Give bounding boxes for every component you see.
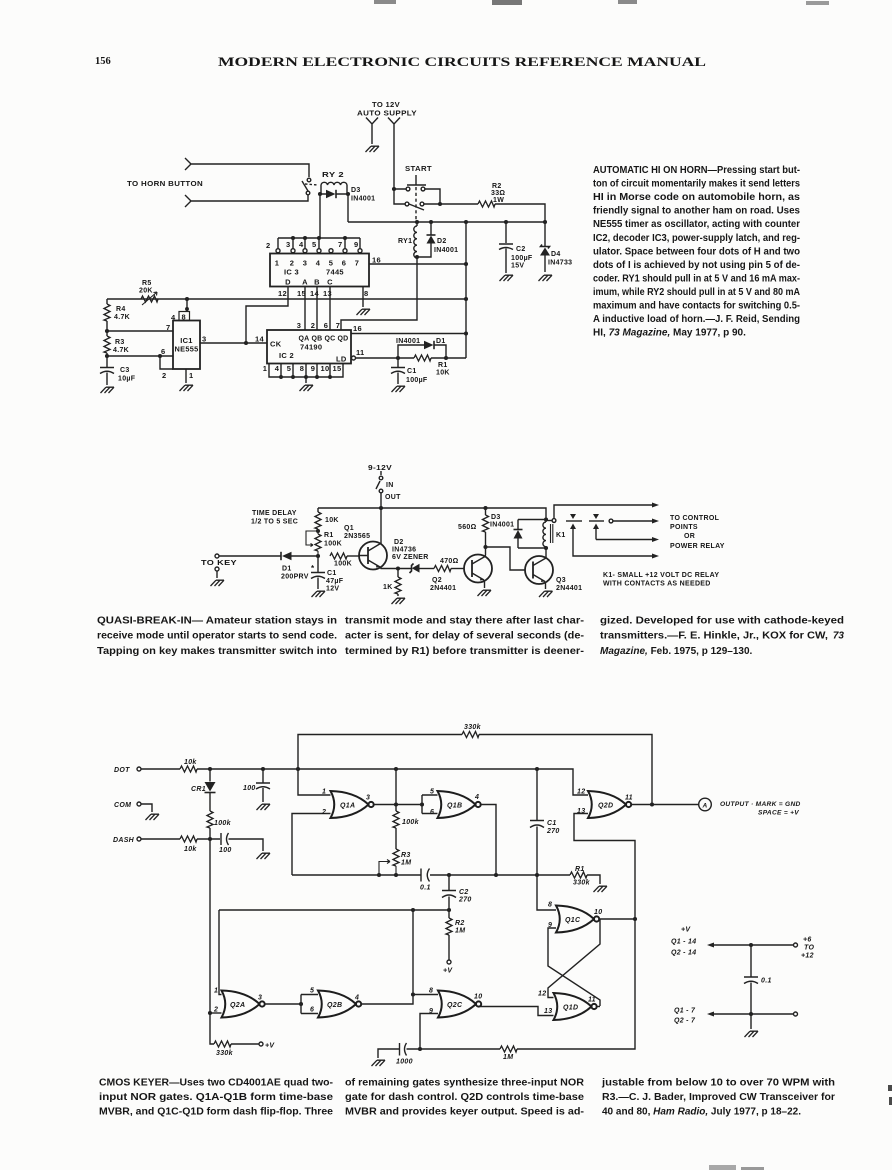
node Vcc/IC1 pins 4-8 <box>185 297 189 301</box>
ground 100 dot <box>257 804 271 810</box>
wire D3 right down to bus <box>347 194 349 222</box>
svg-text:A: A <box>702 803 708 810</box>
svg-text:DOT: DOT <box>114 767 130 774</box>
svg-text:200PRV: 200PRV <box>281 574 309 581</box>
relay coil K1 <box>543 520 546 547</box>
svg-text:14: 14 <box>255 335 264 344</box>
svg-text:AUTOMATIC HI ON HORN—Pressing: AUTOMATIC HI ON HORN—Pressing start but- <box>593 165 800 176</box>
svg-text:7445: 7445 <box>326 268 344 277</box>
svg-text:Q3: Q3 <box>556 577 566 584</box>
terminal key tip <box>215 554 219 558</box>
node bus RY1 <box>415 220 419 224</box>
wire IC2 bottom pins to ground bus <box>269 364 343 384</box>
node IC3 bus pin6 <box>343 236 347 240</box>
svg-text:LD: LD <box>336 355 347 364</box>
svg-text:100K: 100K <box>324 541 342 548</box>
node C2 top <box>447 873 451 877</box>
ground D4 <box>539 275 553 281</box>
svg-text:RY 2: RY 2 <box>322 172 344 179</box>
arrowhead line1 <box>652 503 659 508</box>
capacitor C1 100uF <box>391 358 405 384</box>
svg-text:gate for dash control. Q2D con: gate for dash control. Q2D controls time… <box>345 1092 584 1103</box>
svg-text:R4: R4 <box>116 306 126 313</box>
node C2 bottom <box>447 908 451 912</box>
svg-text:Tapping on key makes transmitt: Tapping on key makes transmitter switch … <box>97 646 337 657</box>
NOR gate Q2C <box>438 991 481 1018</box>
svg-text:5: 5 <box>287 364 291 373</box>
node gnd bus p8 <box>304 375 308 379</box>
svg-text:QC: QC <box>324 336 335 343</box>
svg-text:NE555: NE555 <box>175 345 199 354</box>
svg-text:270: 270 <box>546 828 560 835</box>
resistor R1 10K <box>414 355 431 361</box>
resistor 330k feedback <box>462 732 479 738</box>
node pin6 jog <box>158 354 162 358</box>
scan artifact marks right edge <box>888 1085 892 1105</box>
wire start to R2 <box>424 203 478 205</box>
svg-text:C1: C1 <box>327 570 337 577</box>
node rail/560 <box>483 506 487 510</box>
svg-text:12V: 12V <box>326 586 339 593</box>
resistor R2 33ohm 1W <box>478 201 495 207</box>
capacitor 100 dash line <box>221 833 263 851</box>
svg-text:0.1: 0.1 <box>420 885 431 892</box>
svg-text:WITH CONTACTS AS NEEDED: WITH CONTACTS AS NEEDED <box>603 581 711 588</box>
wire LD to R1 <box>356 357 415 359</box>
diode D4 zener IN4733 <box>544 222 546 272</box>
svg-text:4: 4 <box>316 259 321 268</box>
potentiometer R5 20K <box>141 296 158 302</box>
svg-text:1: 1 <box>322 789 326 796</box>
svg-text:coder. RY1 should pull in at 5: coder. RY1 should pull in at 5 V and 16 … <box>593 273 800 284</box>
wire IC1 pin3 output to IC2 CK <box>200 342 267 344</box>
node clock/D junction <box>244 341 248 345</box>
svg-text:1W: 1W <box>493 197 504 204</box>
node 100k MVBR vertical <box>394 767 398 771</box>
wire DASH to 10k <box>141 838 180 840</box>
svg-text:R3.—C. J. Bader, Improved CW T: R3.—C. J. Bader, Improved CW Transceiver… <box>602 1092 835 1103</box>
wire IC3 top bus <box>278 238 360 249</box>
svg-text:8: 8 <box>548 902 552 909</box>
svg-text:74190: 74190 <box>300 343 322 352</box>
resistor 330k to +V <box>214 1041 231 1047</box>
labels IC3 output pin numbers 2 3 4 5 7 9 <box>266 240 358 250</box>
svg-text:IN4001: IN4001 <box>490 522 514 529</box>
svg-text:100: 100 <box>219 847 232 854</box>
svg-text:OR: OR <box>684 533 695 540</box>
terminal +6 supply <box>794 943 798 947</box>
svg-text:6: 6 <box>324 321 328 330</box>
svg-text:2: 2 <box>162 371 166 380</box>
diode CR1 <box>209 769 211 782</box>
node Q1B input bracket <box>420 802 424 806</box>
svg-text:3: 3 <box>366 795 370 802</box>
wire Q1D output stub <box>597 1006 600 1008</box>
svg-text:10: 10 <box>594 909 602 916</box>
svg-text:C1: C1 <box>547 820 557 827</box>
ground C1 <box>312 591 326 597</box>
svg-text:15: 15 <box>333 364 342 373</box>
node collector rail junction <box>379 506 383 510</box>
capacitor C2 100uF 15V <box>499 222 513 273</box>
svg-text:9: 9 <box>311 364 315 373</box>
svg-text:7: 7 <box>355 259 359 268</box>
resistor 100k dot-dash <box>207 811 213 828</box>
svg-text:C2: C2 <box>459 889 469 896</box>
relay coil RY1 <box>414 222 417 258</box>
wire Q1A pin2 <box>292 814 331 876</box>
wire Q1C pin9 <box>548 928 600 1006</box>
wire Q1C output <box>599 918 635 920</box>
svg-text:SPACE = +V: SPACE = +V <box>758 810 799 817</box>
svg-text:5: 5 <box>430 789 434 796</box>
svg-text:12: 12 <box>538 991 546 998</box>
wire Q1A pin1 <box>298 769 331 795</box>
svg-text:A inductive load of horn.—J. F: A inductive load of horn.—J. F. Reid, Se… <box>593 314 800 325</box>
svg-text:QD: QD <box>337 336 348 343</box>
svg-text:2N3565: 2N3565 <box>344 533 370 540</box>
node R3/C3 pin6 <box>105 354 109 358</box>
svg-text:transmit mode and stay there a: transmit mode and stay there after last … <box>345 616 584 627</box>
resistor 100K base <box>330 553 347 559</box>
switch RY2 contacts and arm <box>307 178 311 182</box>
wire D3 left down to IC3 <box>319 194 321 238</box>
svg-text:16: 16 <box>372 256 381 265</box>
svg-text:6: 6 <box>310 1007 314 1014</box>
svg-text:HI in Morse code on automobile: HI in Morse code on automobile horn, as <box>593 192 800 203</box>
svg-text:termined by R1) before transmi: termined by R1) before transmitter is de… <box>345 646 584 657</box>
ground 1000pF <box>372 1060 386 1066</box>
ground (left supply fork) <box>366 146 380 152</box>
svg-text:3: 3 <box>303 259 307 268</box>
node R2 line junction <box>438 202 442 206</box>
node IC3 bus pin4 <box>317 236 321 240</box>
capacitor C1 47uF 12V <box>311 556 325 589</box>
svg-text:1M: 1M <box>455 928 465 935</box>
svg-text:10K: 10K <box>325 517 339 524</box>
labels IC3 inside: pins 1-7, IC 3, 7445, D A B C <box>275 259 359 287</box>
svg-text:Q2D: Q2D <box>598 803 613 810</box>
svg-text:9: 9 <box>354 240 358 249</box>
svg-text:AUTO SUPPLY: AUTO SUPPLY <box>357 111 417 118</box>
wire D3 top to coil top <box>518 519 546 521</box>
svg-text:2N4401: 2N4401 <box>556 585 582 592</box>
transistor Q1 2N3565 <box>359 542 387 570</box>
terminal +V R2 <box>447 960 451 964</box>
node gnd bus p5 <box>291 375 295 379</box>
svg-text:R1: R1 <box>438 362 448 369</box>
svg-text:QA: QA <box>298 336 309 343</box>
svg-text:D2: D2 <box>437 238 447 245</box>
node Q2D out / 330k <box>650 802 654 806</box>
ground IC2 <box>300 385 314 391</box>
svg-text:R1: R1 <box>324 532 334 539</box>
NOR gate Q1A <box>331 791 374 818</box>
label TO CONTROL POINTS OR POWER RELAY <box>670 515 725 550</box>
wire dot line <box>197 769 588 795</box>
node Q1B output junction <box>494 873 498 877</box>
wire 100k down to Q2A pin2 and 330k <box>210 839 214 1044</box>
svg-text:15V: 15V <box>511 263 524 270</box>
svg-text:100: 100 <box>243 785 256 792</box>
wire RY1/D2 to QD jog <box>341 257 417 330</box>
svg-text:+12: +12 <box>801 953 814 960</box>
wire supply rail <box>318 508 546 519</box>
arrowhead line3 <box>652 537 659 542</box>
svg-text:gized. Developed for use with: gized. Developed for use with cathode-ke… <box>600 616 844 627</box>
svg-text:1M: 1M <box>503 1054 513 1061</box>
terminal fork horn lower <box>185 195 196 207</box>
svg-text:Q1C: Q1C <box>565 917 581 924</box>
svg-text:K1: K1 <box>556 532 566 539</box>
node supply/start junction <box>392 187 396 191</box>
svg-text:+V: +V <box>265 1043 275 1050</box>
svg-text:K1- SMALL +12 VOLT DC RELAY: K1- SMALL +12 VOLT DC RELAY <box>603 572 719 579</box>
wire Q2A pin1 riser <box>219 910 222 995</box>
labels IC2 top pins 3 2 6 7 <box>297 321 340 330</box>
terminal A output circle <box>699 798 712 811</box>
svg-text:8: 8 <box>429 988 433 995</box>
svg-text:9: 9 <box>548 922 552 929</box>
svg-text:12: 12 <box>278 289 287 298</box>
svg-text:R1: R1 <box>575 866 585 873</box>
wire IC3 D pin12 jog to clock line <box>246 287 288 344</box>
svg-text:C: C <box>327 278 333 287</box>
contact arrow up 1 <box>572 526 574 537</box>
svg-text:POWER RELAY: POWER RELAY <box>670 543 725 550</box>
svg-text:10: 10 <box>321 364 330 373</box>
transistor Q3 2N4401 <box>525 556 553 584</box>
ground C2 <box>500 275 514 281</box>
node Q1C out / 1M riser <box>633 917 637 921</box>
wire IC3 pin8 to ground <box>362 287 364 308</box>
label K1 note <box>603 572 719 588</box>
contact arrow down 1 <box>570 514 576 519</box>
resistor R3 4.7K <box>106 331 108 356</box>
node C1/R1 junction <box>535 873 539 877</box>
resistor R4 4.7K <box>106 299 108 331</box>
node 10K/R1 <box>316 529 320 533</box>
NOR gate Q1D <box>554 993 597 1020</box>
svg-text:33Ω: 33Ω <box>491 190 505 197</box>
wire key sleeve to ground <box>216 571 218 578</box>
wire Q2A pin2 stub <box>210 1012 222 1014</box>
wire Q1C pin8 jog <box>537 875 556 910</box>
wire Q2B output to pin8 riser <box>361 910 413 1004</box>
wire IC1 pin7 <box>107 330 173 332</box>
svg-text:1: 1 <box>214 988 218 995</box>
svg-text:1M: 1M <box>401 860 411 867</box>
wire 0.1 to ground <box>750 1014 752 1029</box>
ground 1K <box>392 598 406 604</box>
label OUTPUT MARK/SPACE <box>720 801 801 817</box>
svg-text:Q1 - 14: Q1 - 14 <box>671 939 696 946</box>
svg-text:D4: D4 <box>551 251 561 258</box>
svg-text:R2: R2 <box>455 920 465 927</box>
relay armature pivot <box>552 519 556 523</box>
svg-text:+V: +V <box>443 968 453 975</box>
ground C3 <box>101 387 115 393</box>
wire Q1B input bracket <box>422 795 438 814</box>
wire 330k feedback top <box>298 735 652 806</box>
arrowhead ground feed <box>707 1012 714 1017</box>
node 1000/pin9 <box>418 1047 422 1051</box>
wire key to D1 <box>219 555 281 557</box>
svg-text:D1: D1 <box>436 338 446 345</box>
svg-text:100K: 100K <box>334 561 352 568</box>
wire horn lower <box>196 195 308 201</box>
capacitor 0.1 MVBR <box>421 869 430 882</box>
svg-text:270: 270 <box>458 897 472 904</box>
node 100pF junction <box>261 767 265 771</box>
svg-text:dots of I is achieved by not u: dots of I is achieved by not using pin 5… <box>593 260 800 271</box>
node RY2 left <box>318 192 322 196</box>
svg-text:1000: 1000 <box>396 1059 413 1066</box>
svg-text:MVBR, and Q1C-Q1D form dash fl: MVBR, and Q1C-Q1D form dash flip-flop. T… <box>99 1107 333 1118</box>
diode D2 1N4001 <box>417 222 431 257</box>
wire Q2A output to Q2B bracket <box>265 1003 301 1005</box>
label TO 12V AUTO SUPPLY <box>357 102 417 118</box>
wire IC3 A to IC2 QA <box>304 287 306 331</box>
svg-text:2: 2 <box>321 809 326 816</box>
svg-text:100k: 100k <box>402 819 420 826</box>
wire COM to ground <box>141 804 152 812</box>
svg-text:14: 14 <box>310 289 319 298</box>
potentiometer R1 100K <box>315 534 321 551</box>
capacitor 100 dot line <box>256 769 270 802</box>
capacitor C2 270 <box>442 875 456 910</box>
wire Q2D pin13 jog <box>574 814 635 920</box>
svg-text:Magazine, Feb. 1975, p 129–130: Magazine, Feb. 1975, p 129–130. <box>600 646 753 657</box>
svg-text:D1: D1 <box>282 566 292 573</box>
node Q2 collector junction <box>483 545 487 549</box>
svg-text:IC2, decoder IC3, power-supply: IC2, decoder IC3, power-supply latch, an… <box>593 233 800 244</box>
svg-text:IN4001: IN4001 <box>351 196 375 203</box>
pin bracket 4 8 <box>179 312 190 321</box>
pin LD bubble <box>352 356 356 360</box>
svg-text:TO 12V: TO 12V <box>372 102 400 109</box>
wire IC3 B to IC2 QB <box>316 287 318 331</box>
svg-text:2N4401: 2N4401 <box>430 585 456 592</box>
svg-text:START: START <box>405 166 432 173</box>
svg-text:CMOS KEYER—Uses two CD4001AE q: CMOS KEYER—Uses two CD4001AE quad two- <box>99 1078 333 1089</box>
node 0.1 bottom <box>749 1012 753 1016</box>
wire pivot2 to line 2 <box>613 520 652 522</box>
wire cross coupling Q1C out to Q1D pin12 <box>548 919 600 998</box>
wire IC3 pin16 to supply vertical <box>369 263 466 265</box>
resistor 10K <box>317 508 319 531</box>
node gnd bus p4 <box>279 375 283 379</box>
label TIME DELAY 1/2 TO 5 SEC <box>251 510 298 526</box>
svg-text:Q1A: Q1A <box>340 803 355 810</box>
svg-text:8: 8 <box>300 364 304 373</box>
diode D2 zener IN4736 <box>410 564 414 574</box>
svg-text:MVBR and provides keyer output: MVBR and provides keyer output. Speed is… <box>345 1107 584 1118</box>
svg-text:friendly signal to another ham: friendly signal to another ham on road. … <box>593 206 800 217</box>
resistor 100k MVBR <box>393 811 399 828</box>
svg-text:73: 73 <box>833 631 845 642</box>
svg-text:7: 7 <box>336 321 340 330</box>
ground C1 <box>392 386 406 392</box>
terminal fork right <box>388 118 400 190</box>
svg-text:11: 11 <box>588 997 596 1004</box>
svg-text:C1: C1 <box>407 368 417 375</box>
wire IC2 pin16 to supply vertical <box>351 333 466 335</box>
wire supply vertical x466 <box>465 222 467 358</box>
svg-text:40 and 80, Ham Radio, July 197: 40 and 80, Ham Radio, July 1977, p 18–22… <box>602 1107 801 1118</box>
svg-text:+6: +6 <box>803 937 812 944</box>
svg-text:330k: 330k <box>464 724 482 731</box>
NOR gate Q2D <box>588 791 631 818</box>
wire Q1A output to Q1B <box>374 804 422 806</box>
svg-text:transmitters.—F. E. Hinkle, Jr: transmitters.—F. E. Hinkle, Jr., KOX for… <box>600 631 828 642</box>
svg-text:3: 3 <box>297 321 301 330</box>
NOR gate Q2A <box>222 991 265 1018</box>
resistor 1K <box>397 569 399 597</box>
diode D1 200PRV <box>280 552 282 560</box>
wire 1M line <box>420 919 635 1049</box>
svg-text:2: 2 <box>213 1007 218 1014</box>
svg-text:POINTS: POINTS <box>670 524 698 531</box>
svg-text:COM: COM <box>114 802 131 809</box>
wire Q3 emitter to ground <box>544 582 547 590</box>
svg-text:ton of circuit momentarily mak: ton of circuit momentarily makes it send… <box>593 179 800 190</box>
svg-text:5: 5 <box>310 988 314 995</box>
svg-text:Q1 - 7: Q1 - 7 <box>674 1008 696 1015</box>
svg-text:D3: D3 <box>491 514 501 521</box>
node IC3 bus pin3 <box>303 236 307 240</box>
svg-text:Q1B: Q1B <box>447 803 462 810</box>
svg-text:2: 2 <box>266 241 270 250</box>
node R3 arrow tap <box>377 873 381 877</box>
svg-text:11: 11 <box>625 795 633 802</box>
node gnd bus p10 <box>328 375 332 379</box>
svg-text:CR1: CR1 <box>191 786 206 793</box>
svg-text:C3: C3 <box>120 367 130 374</box>
svg-text:5: 5 <box>312 240 316 249</box>
svg-text:IN4736: IN4736 <box>392 547 416 554</box>
terminal ground feed right <box>794 1012 798 1016</box>
svg-text:R5: R5 <box>142 280 152 287</box>
svg-text:0.1: 0.1 <box>761 978 772 985</box>
node bus x466 <box>464 220 468 224</box>
svg-text:OUT: OUT <box>385 494 401 501</box>
svg-text:Q2: Q2 <box>432 577 442 584</box>
potentiometer R3 1M <box>393 849 399 866</box>
svg-text:330k: 330k <box>573 880 591 887</box>
node 330k/Q1A vertical <box>296 767 300 771</box>
ground key <box>211 580 225 586</box>
terminal +V bottom left <box>259 1042 263 1046</box>
svg-text:receive mode until operator st: receive mode until operator starts to se… <box>97 631 337 642</box>
wire Vcc line R5 to x466 <box>107 298 466 300</box>
wire three-input net y910 <box>219 909 449 911</box>
wire Q2 collector to 560 <box>484 547 487 557</box>
wire dash line <box>197 838 220 840</box>
svg-text:9: 9 <box>429 1008 433 1015</box>
svg-text:of remaining gates synthesize: of remaining gates synthesize three-inpu… <box>345 1078 585 1089</box>
capacitor 0.1 bypass <box>744 945 758 1014</box>
svg-text:3: 3 <box>286 240 290 249</box>
svg-text:6V ZENER: 6V ZENER <box>392 554 429 561</box>
svg-text:1: 1 <box>263 364 267 373</box>
svg-text:MODERN ELECTRONIC CIRCUITS REF: MODERN ELECTRONIC CIRCUITS REFERENCE MAN… <box>218 54 706 69</box>
resistor R1 330k to ground <box>537 874 570 876</box>
relay contact bar 2 <box>589 520 604 522</box>
svg-text:TO KEY: TO KEY <box>201 560 237 567</box>
resistor 1M <box>500 1046 517 1052</box>
svg-text:D2: D2 <box>394 539 404 546</box>
